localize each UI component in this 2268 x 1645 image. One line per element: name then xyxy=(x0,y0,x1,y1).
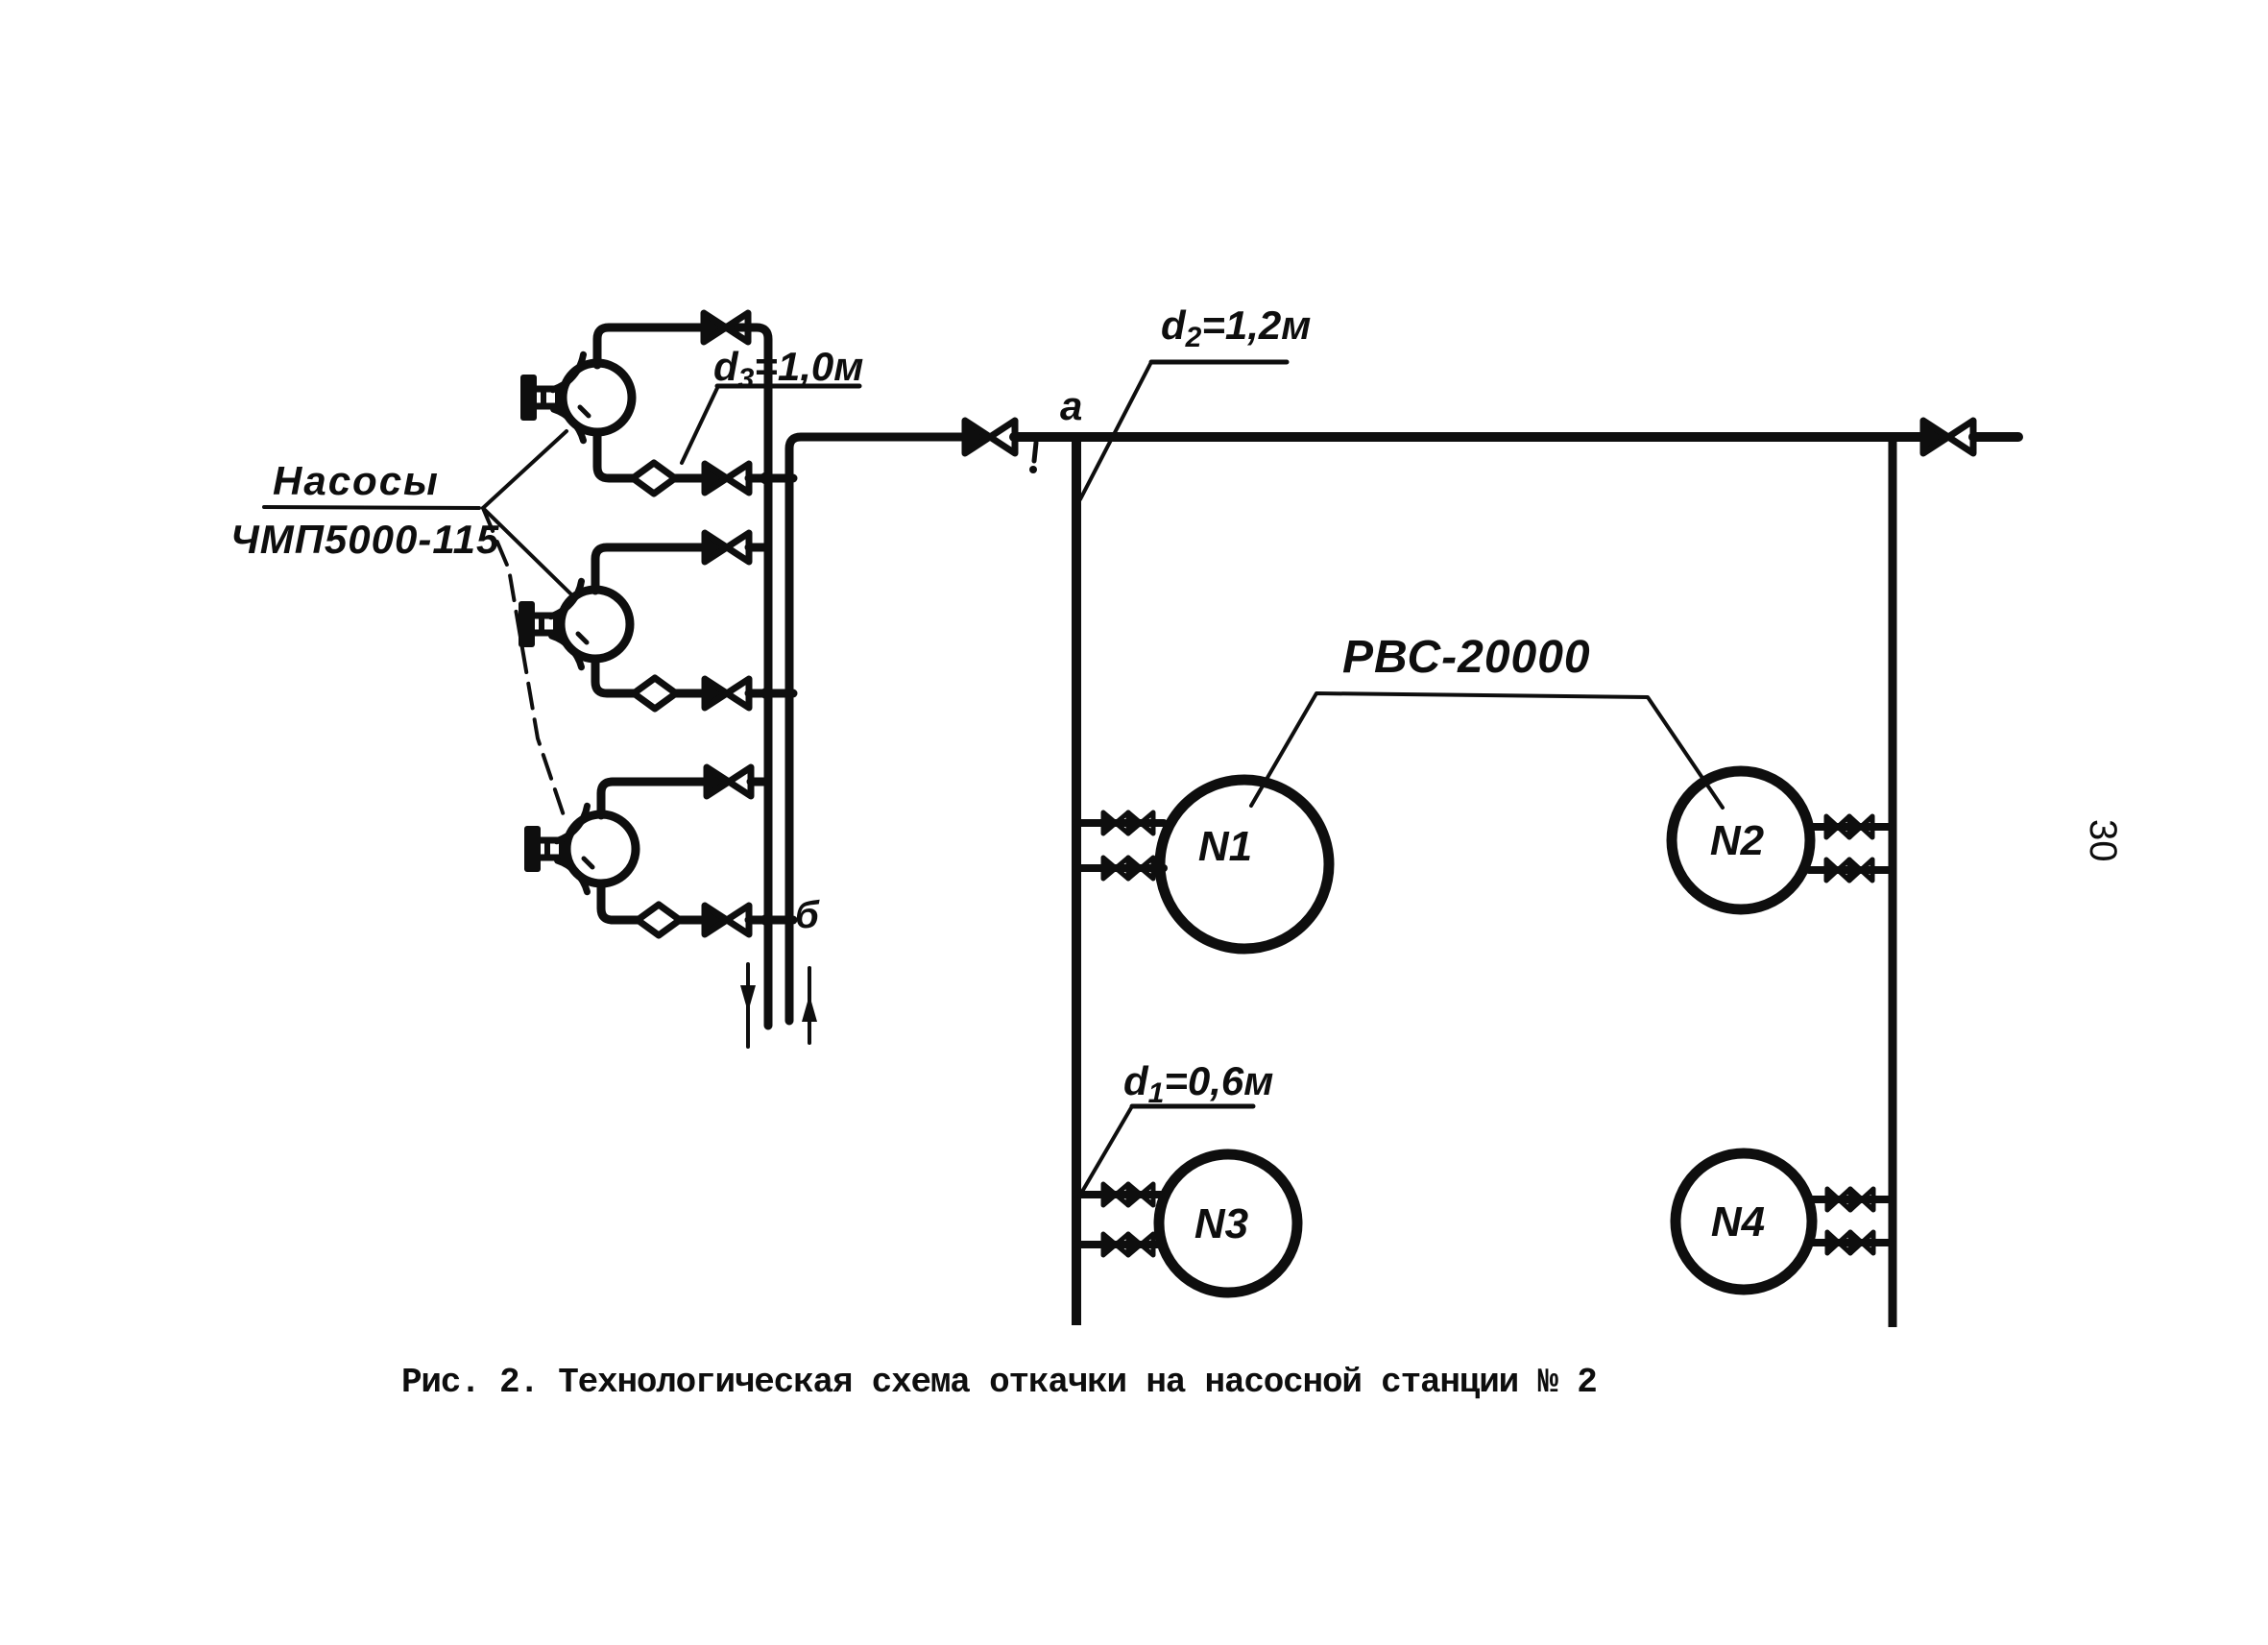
tank N1 (РВС-20000) xyxy=(1160,780,1329,949)
svg-text:б: б xyxy=(795,894,820,936)
junction arrow pump3 row xyxy=(756,913,766,927)
tick mark below main line at node a xyxy=(1029,443,1037,473)
wire: pump1 diamond to valve xyxy=(675,474,704,483)
wire: N1 bottom nozzle xyxy=(1076,864,1164,872)
valve on pump 2 suction xyxy=(705,533,749,562)
wire: suction header (vertical line 1, d3=1,0m) xyxy=(714,327,768,1026)
wire: pump2 diamond to valve xyxy=(676,689,705,698)
valve on main line near node a xyxy=(965,421,1015,453)
wire: pump 2 discharge stub to header 2 xyxy=(749,689,793,698)
wire: pump 1 discharge pipe (bottom) xyxy=(597,432,633,478)
wire: pump 1 suction pipe (top) xyxy=(597,327,704,365)
svg-text:a: a xyxy=(1060,383,1082,428)
check valve (diamond) pump 2 xyxy=(634,678,676,709)
svg-text:d2=1,2м: d2=1,2м xyxy=(1161,302,1311,353)
leader Насосы horizontal xyxy=(264,507,479,508)
leader d3 to pump discharge pipe xyxy=(682,388,717,463)
valve on pump 1 discharge xyxy=(705,464,749,493)
svg-text:N3: N3 xyxy=(1194,1200,1248,1247)
pump 1 (НМП 5000-115) xyxy=(520,354,632,440)
wire: pump 3 discharge pipe (bottom) xyxy=(601,883,638,920)
valve on pump 1 suction xyxy=(704,313,748,342)
svg-text:Насосы: Насосы xyxy=(273,458,440,503)
wire: N3 top nozzle xyxy=(1076,1191,1161,1198)
wire: main line right end stub xyxy=(1973,432,2018,442)
underline d2 xyxy=(1151,360,1287,365)
double valve N3 bottom xyxy=(1103,1234,1153,1255)
wire: pump2 suction stub to header 1 xyxy=(749,544,768,552)
underline d3 xyxy=(717,384,859,389)
wire: discharge header (vertical line 2) turning into main line xyxy=(789,437,966,1021)
wire: N1 top nozzle xyxy=(1076,819,1164,827)
svg-text:N1: N1 xyxy=(1198,823,1252,870)
wire: pump 2 discharge pipe (bottom) xyxy=(595,659,634,693)
wire: pump 2 suction pipe (top) xyxy=(595,547,704,591)
double valve N4 top xyxy=(1827,1189,1873,1210)
wire: left tank header (d2=1,2m) xyxy=(1072,435,1081,1325)
flow arrow down (left of header 1) xyxy=(740,964,756,1047)
tank N2 (РВС-20000) xyxy=(1672,771,1810,909)
tank N3 (РВС-20000) xyxy=(1159,1154,1297,1293)
double valve N3 top xyxy=(1103,1184,1153,1205)
junction arrow pump1 row xyxy=(755,472,765,485)
wire: N2 bottom nozzle xyxy=(1809,866,1893,874)
underline d1 xyxy=(1132,1104,1253,1109)
svg-text:РВС-20000: РВС-20000 xyxy=(1342,632,1591,683)
double valve N2 top xyxy=(1826,816,1872,837)
svg-text:N4: N4 xyxy=(1711,1198,1765,1246)
check valve (diamond) pump 1 xyxy=(633,463,675,494)
valve on main line right end xyxy=(1923,421,1973,453)
check valve (diamond) pump 3 xyxy=(638,905,680,935)
svg-text:N2: N2 xyxy=(1710,817,1765,864)
svg-text:d1=0,6м: d1=0,6м xyxy=(1123,1058,1273,1109)
leader to pump 3 (dash-dot) xyxy=(483,508,567,824)
valve on pump 2 discharge xyxy=(705,679,749,708)
wire: pump3 suction stub to header 1 xyxy=(751,778,768,786)
leader to pump 2 xyxy=(483,508,572,595)
leader to pump 1 xyxy=(483,431,567,508)
svg-text:Рис. 2. Технологическая схема: Рис. 2. Технологическая схема откачки на… xyxy=(401,1363,1597,1402)
valve on pump 3 suction xyxy=(707,767,751,796)
wire: pump 3 discharge stub to header 2 (node б) xyxy=(749,916,793,925)
wire: N4 top nozzle xyxy=(1812,1196,1893,1203)
wire: N2 top nozzle xyxy=(1809,823,1893,831)
valve on pump 3 discharge xyxy=(705,906,749,934)
junction arrow pump2 row xyxy=(756,687,766,700)
double valve N4 bottom xyxy=(1827,1232,1873,1253)
wire: N4 bottom nozzle xyxy=(1812,1239,1893,1246)
svg-text:30: 30 xyxy=(2082,819,2124,862)
double valve N1 bottom xyxy=(1103,858,1153,879)
wire: pump 1 discharge stub to header 2 xyxy=(749,474,793,483)
double valve N2 bottom xyxy=(1826,859,1872,881)
wire: right tank header xyxy=(1889,435,1897,1327)
wire: pump3 diamond to valve xyxy=(680,916,705,925)
tank N4 (РВС-20000) xyxy=(1676,1153,1812,1290)
pump 3 (НМП 5000-115) xyxy=(524,806,636,891)
wire: N3 bottom nozzle xyxy=(1076,1241,1161,1248)
wire: main discharge line to tank farm (right of valve) xyxy=(1014,432,1923,442)
flow arrow up (right of header 2) xyxy=(802,968,817,1043)
wire: pump 3 suction pipe (top) xyxy=(601,782,706,815)
pump 2 (НМП 5000-115) xyxy=(519,581,630,666)
double valve N1 top xyxy=(1103,812,1153,834)
leader line РВС-20000 to N1 and N2 xyxy=(1251,693,1723,808)
leader d1 to left tank header xyxy=(1079,1106,1132,1197)
leader d2 to left tank header xyxy=(1080,362,1151,499)
svg-text:ЧМП5000-115: ЧМП5000-115 xyxy=(230,517,499,562)
